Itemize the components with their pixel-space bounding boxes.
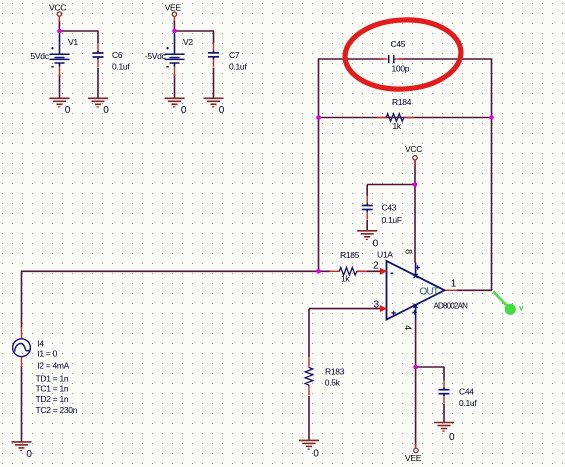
- svg-text:U1A: U1A: [377, 250, 393, 260]
- svg-text:0: 0: [313, 449, 319, 460]
- svg-text:AD8002AN: AD8002AN: [434, 302, 469, 311]
- svg-text:0: 0: [103, 105, 109, 116]
- svg-text:I1 = 0: I1 = 0: [37, 349, 57, 359]
- svg-text:C45: C45: [391, 39, 406, 49]
- svg-text:0.1uf: 0.1uf: [459, 398, 477, 408]
- svg-text:I4: I4: [37, 339, 44, 349]
- svg-text:v: v: [519, 304, 524, 313]
- svg-text:0: 0: [449, 432, 455, 443]
- svg-text:0.5k: 0.5k: [325, 378, 341, 388]
- svg-text:0.1uf: 0.1uf: [229, 62, 247, 72]
- svg-text:5Vdc: 5Vdc: [31, 51, 50, 61]
- svg-text:8: 8: [403, 249, 413, 254]
- svg-text:R183: R183: [325, 367, 345, 377]
- svg-text:TD2 = 1n: TD2 = 1n: [36, 394, 69, 404]
- svg-text:V2: V2: [183, 37, 193, 47]
- svg-text:VCC: VCC: [405, 144, 422, 154]
- svg-text:VEE: VEE: [165, 2, 182, 12]
- svg-text:0.1uF: 0.1uF: [382, 215, 402, 225]
- svg-text:C6: C6: [112, 50, 123, 60]
- svg-text:4: 4: [403, 325, 413, 330]
- svg-text:0: 0: [373, 238, 379, 249]
- svg-text:R184: R184: [392, 97, 412, 107]
- svg-text:0: 0: [65, 105, 71, 116]
- svg-text:0.1uf: 0.1uf: [112, 62, 130, 72]
- svg-text:-5Vdc: -5Vdc: [145, 51, 167, 61]
- svg-text:1: 1: [451, 279, 457, 290]
- svg-text:C7: C7: [229, 50, 240, 60]
- svg-text:0: 0: [181, 105, 187, 116]
- svg-text:0: 0: [26, 449, 32, 460]
- svg-text:3: 3: [374, 300, 380, 311]
- svg-text:TC1 = 1n: TC1 = 1n: [36, 384, 69, 394]
- svg-text:TC2 = 230n: TC2 = 230n: [36, 405, 78, 415]
- svg-text:VCC: VCC: [49, 2, 66, 12]
- svg-text:0: 0: [219, 105, 225, 116]
- svg-text:R185: R185: [340, 250, 360, 260]
- svg-text:C43: C43: [382, 203, 397, 213]
- svg-text:VEE: VEE: [405, 453, 422, 463]
- svg-text:100p: 100p: [392, 64, 410, 74]
- svg-text:OUT: OUT: [420, 287, 439, 298]
- svg-text:1k: 1k: [341, 274, 350, 284]
- svg-text:C44: C44: [459, 387, 474, 397]
- svg-text:2: 2: [373, 261, 379, 272]
- svg-text:1k: 1k: [393, 121, 402, 131]
- svg-text:I2 = 4mA: I2 = 4mA: [37, 361, 69, 371]
- svg-text:TD1 = 1n: TD1 = 1n: [36, 374, 69, 384]
- svg-text:V1: V1: [68, 37, 78, 47]
